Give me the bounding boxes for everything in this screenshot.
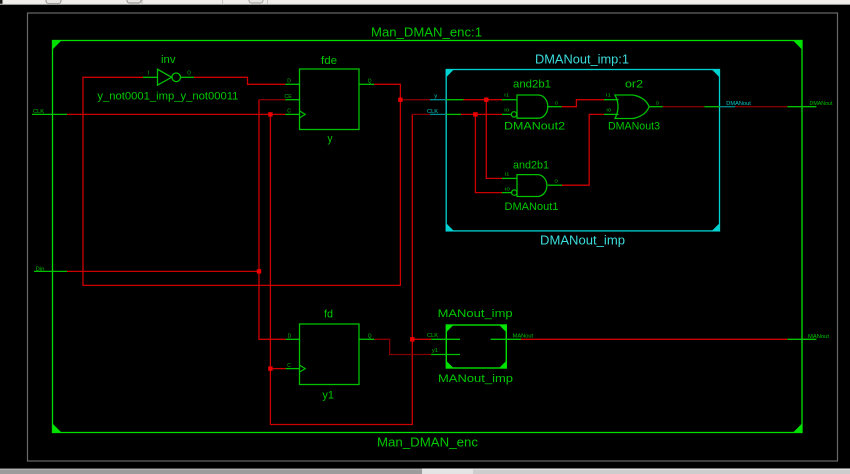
svg-text:I: I (148, 70, 150, 76)
status bar tab dark (0, 469, 422, 474)
svg-text:D: D (287, 78, 291, 84)
wire inv input horizontal (83, 77, 400, 285)
hier corner triangle BL (446, 223, 454, 231)
svg-text:C: C (287, 363, 291, 369)
wire inv output to fde D (194, 77, 285, 84)
svg-text:y: y (328, 133, 333, 145)
junction CLK/MANout (410, 337, 414, 341)
svg-text:y_not0001_imp_y_not00011: y_not0001_imp_y_not00011 (97, 90, 238, 102)
DMANout2 output stub (548, 106, 562, 108)
toolbar bottom shade (0, 3, 850, 5)
svg-text:y1: y1 (322, 389, 334, 401)
svg-text:CLK: CLK (427, 333, 439, 339)
fd clock triangle (300, 365, 306, 372)
hier pin inner stub CLK (446, 113, 461, 115)
wire Din vertical to fd D (259, 100, 286, 340)
wire or2 out to hier pin (663, 106, 705, 108)
svg-text:Q: Q (368, 78, 372, 84)
inv output stub (181, 76, 195, 78)
svg-text:and2b1: and2b1 (513, 159, 549, 171)
svg-text:O: O (555, 101, 559, 106)
svg-text:MANout: MANout (513, 333, 534, 339)
hier pin teal stub DMANout (720, 106, 736, 108)
fde C stub (285, 113, 299, 115)
hier corner triangle TR (712, 70, 720, 78)
toolbar button 2 bottom (127, 0, 141, 3)
DMANout1 I1 stub (502, 177, 517, 179)
wire MANout output (521, 338, 787, 340)
inverter U-inv bubble (172, 73, 181, 82)
DMANout2 I0 stub (502, 113, 511, 115)
svg-text:MANout_imp: MANout_imp (438, 308, 513, 320)
DMANout2 I1 stub (502, 99, 517, 101)
svg-text:I1: I1 (505, 171, 511, 176)
wire CLK vertical loop (270, 114, 412, 424)
MANout_imp y1 stub (431, 354, 460, 356)
status bar mid light (422, 469, 473, 474)
toolbar separator 3 (267, 0, 269, 5)
DMANout1 output stub (548, 184, 562, 186)
wire CLK-row inside hier (461, 113, 502, 115)
wire y-row inside hier (464, 99, 503, 101)
DMANout1 I0 stub (502, 192, 512, 194)
svg-text:DMANout_imp:1: DMANout_imp:1 (535, 51, 629, 66)
MANout_imp corner TR (499, 325, 506, 332)
toolbar separator 1 (141, 0, 143, 5)
and-gate DMANout1 body (517, 175, 547, 197)
wire MANout CLK branch (412, 338, 431, 340)
wire y net into hier box (400, 99, 430, 101)
wire Din horizontal (67, 270, 259, 272)
svg-text:DMANout3: DMANout3 (608, 121, 660, 133)
sheet corner triangle BR (793, 424, 802, 433)
fd C stub (286, 368, 300, 370)
svg-text:I1: I1 (504, 93, 510, 98)
toolbar button 1 bottom (46, 0, 61, 4)
junction y-row branch (484, 98, 488, 102)
wire CLK net into hier box (412, 113, 430, 115)
wire branch to DMANout1 I1 (486, 100, 502, 179)
and-gate DMANout2 body (517, 95, 548, 118)
DMANout3 I1 stub (604, 99, 619, 101)
svg-text:I0: I0 (505, 186, 511, 191)
DMANout3 output stub (649, 106, 663, 108)
svg-text:y1: y1 (432, 348, 438, 354)
junction Din/CE (257, 269, 261, 273)
wire DMANout to sheet port (735, 106, 787, 108)
svg-text:Q: Q (368, 333, 372, 339)
junction y net (398, 98, 402, 102)
junction CLK/fde-C (268, 112, 272, 116)
fde D stub (285, 83, 299, 85)
MANout_imp corner TL (446, 325, 453, 332)
toolbar strip (0, 0, 850, 5)
sheet border Man_DMAN_enc (53, 41, 803, 433)
wire fd Q to MANout y1 (374, 339, 431, 354)
inverter U-inv triangle (158, 69, 172, 85)
toolbar separator 2 (222, 0, 224, 5)
hier pin inner stub y (446, 99, 463, 101)
fde Q stub (359, 83, 374, 85)
hier pin inner stub DMANout (704, 106, 719, 108)
MANout_imp output stub (491, 338, 521, 340)
status bar top highlight (422, 468, 850, 470)
svg-text:DMANout: DMANout (810, 101, 834, 107)
svg-text:O: O (555, 179, 559, 184)
fd D stub (286, 338, 300, 340)
junction CLK/fd-C (268, 366, 272, 370)
hier corner triangle TL (446, 70, 454, 78)
flip-flop fd body (300, 324, 360, 385)
hier pin teal stub y (430, 99, 446, 101)
svg-text:DMANout: DMANout (726, 101, 751, 107)
inv input stub (143, 76, 158, 78)
svg-text:inv: inv (161, 54, 176, 66)
hierarchy box DMANout_imp (446, 70, 719, 231)
svg-text:DMANout_imp: DMANout_imp (540, 233, 625, 248)
hier pin teal stub CLK (430, 113, 446, 115)
wire CLK horizontal to fde C (67, 113, 285, 115)
svg-text:fde: fde (321, 55, 337, 67)
toolbar dark notch left (0, 0, 3, 5)
svg-text:MANout_imp: MANout_imp (438, 373, 513, 385)
svg-text:and2b1: and2b1 (513, 78, 551, 90)
or-gate DMANout3 body (615, 95, 649, 119)
svg-text:D: D (288, 333, 292, 339)
MANout_imp corner BL (446, 361, 453, 368)
sheet corner triangle TL (53, 41, 62, 50)
component MANout_imp body (446, 325, 506, 368)
sheet corner triangle TR (793, 41, 802, 50)
flip-flop fde body (300, 69, 360, 130)
and-gate DMANout1 input bubble (512, 190, 517, 195)
port stub MANout (787, 338, 816, 340)
svg-text:DMANout2: DMANout2 (504, 121, 565, 133)
wire DMANout1 out to or2 I0 (562, 114, 604, 185)
wire branch to DMANout1 I0 (475, 114, 502, 192)
toolbar button 3 bottom (249, 0, 263, 3)
svg-text:or2: or2 (625, 78, 643, 90)
fde CE stub (285, 99, 299, 101)
svg-text:I0: I0 (606, 108, 612, 113)
svg-text:I0: I0 (504, 108, 510, 113)
fde clock triangle (300, 111, 306, 118)
port stub DMANout (787, 106, 816, 108)
DMANout3 I0 stub (604, 113, 619, 115)
port stub Din (34, 270, 67, 272)
wire DMANout2 out to or2 I1 (562, 100, 604, 107)
MANout_imp corner BR (499, 361, 506, 368)
sheet corner triangle BL (53, 424, 62, 433)
svg-text:Man_DMAN_enc: Man_DMAN_enc (377, 434, 478, 449)
fd Q stub (359, 338, 374, 340)
svg-text:O: O (187, 71, 191, 77)
status bar base (0, 469, 850, 474)
svg-text:C: C (287, 109, 291, 115)
svg-text:I1: I1 (606, 93, 612, 98)
hier corner triangle BR (712, 223, 720, 231)
svg-text:O: O (656, 101, 660, 106)
MANout_imp CLK stub (431, 338, 460, 340)
junction CLK-row branch (473, 112, 477, 116)
wire fd C branch (270, 368, 285, 370)
svg-text:CE: CE (284, 94, 292, 100)
svg-text:DMANout1: DMANout1 (505, 201, 559, 213)
port stub CLK (32, 113, 67, 115)
wire fde CE dark segment (259, 99, 285, 101)
and-gate DMANout2 input bubble (511, 112, 516, 117)
svg-text:fd: fd (324, 309, 333, 321)
svg-text:Man_DMAN_enc:1: Man_DMAN_enc:1 (371, 24, 482, 39)
